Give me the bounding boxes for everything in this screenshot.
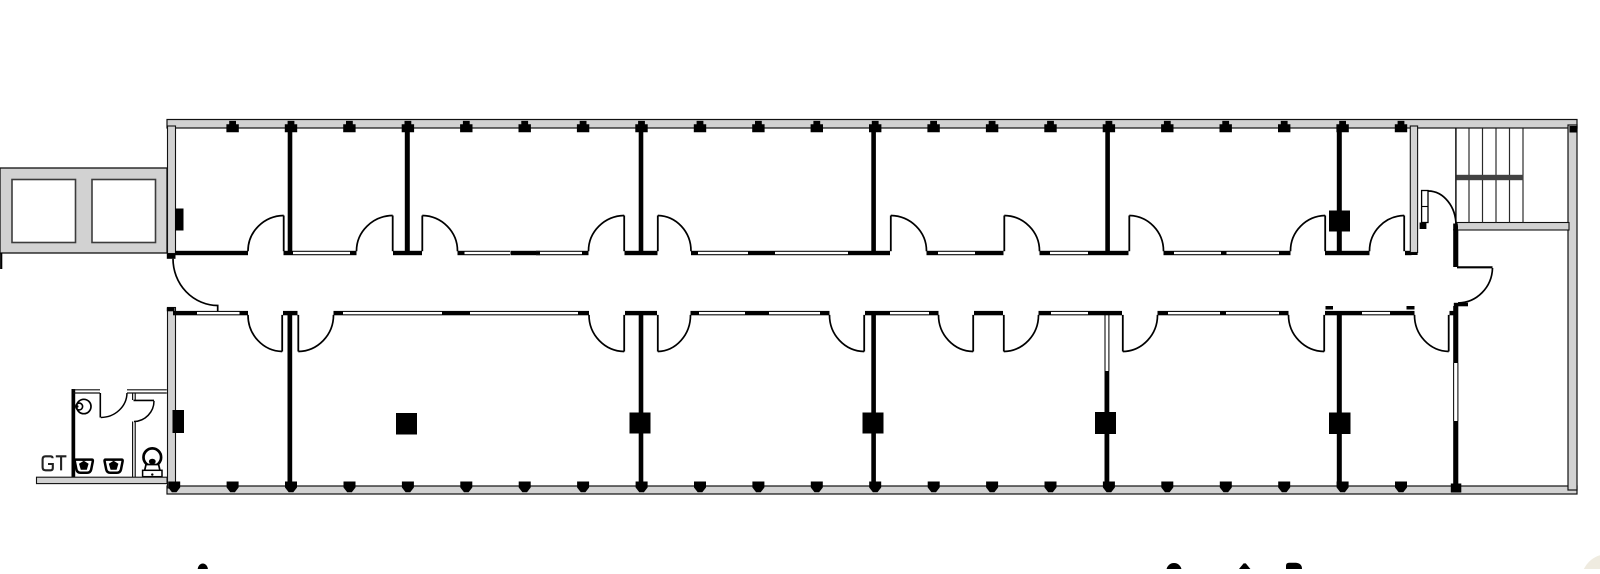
wire glazed wall B x470-578 (470, 310, 578, 312)
wall solid segment T12 cap (927, 251, 939, 255)
wall upper partition P3 (639, 128, 644, 252)
wall solid segment B9 chunk (745, 311, 769, 315)
door lower room5 door right of Q4 (1122, 315, 1124, 352)
wire glazed wall B glazed slot x1362-1390 (1362, 310, 1390, 312)
column square on P6 upper (1329, 211, 1350, 232)
stair treads (1468, 129, 1470, 223)
wall toilet inner partition lower (132, 422, 134, 478)
door room4 door right of P3 (657, 216, 659, 252)
node junction blob bottom of right-end partition (1451, 484, 1462, 493)
node top-right wall junction block (1570, 126, 1578, 133)
wire glazed wall T x1174-1221 (1174, 250, 1221, 252)
wall toilet inner partition upper (132, 393, 134, 400)
door room1 door (hinge at P1) (283, 216, 285, 252)
wall cap left corridor end upper (167, 254, 176, 259)
wire glazed wall B x890-929 (890, 310, 929, 312)
door room3 door left of P3 (623, 216, 625, 252)
wall solid segment T10 chunk (748, 251, 775, 255)
wall solid segment T19 threshold at P6 (1325, 251, 1370, 255)
column square room A (396, 413, 417, 435)
wall lower partition Q3 (871, 313, 876, 486)
wall solid segment T16 cap (1164, 251, 1175, 255)
fixture toilet bowl (144, 448, 162, 466)
wall solid segment B16 cap (1158, 311, 1169, 315)
wall toilet annex left (solid) (72, 389, 76, 477)
wall solid segment T11 chunk+P4 (848, 251, 890, 255)
wire glazed wall B x197-239 (197, 310, 240, 312)
wall solid segment T7 cap (582, 251, 589, 255)
door room5 door right of P4 (890, 216, 892, 252)
wire toilet annex base strip (37, 477, 168, 483)
wall solid segment B10 cap (820, 311, 830, 315)
column square on Q2 (630, 413, 651, 434)
wire glazed wall B x343-442 (343, 310, 442, 312)
elevator annex block (0, 168, 167, 253)
door stair entry hinge block (1420, 223, 1427, 230)
wall cap stair wall bottom (1408, 253, 1418, 256)
wall solid segment B19 threshold left part (1325, 311, 1362, 315)
wall solid segment B21 cap/leaf zone (1450, 311, 1456, 315)
door lower room2 door right of Q1 (297, 315, 299, 352)
wire stair block left wall (1410, 126, 1417, 253)
door room3 door right of P2 (421, 216, 423, 252)
wall solid segment T4 threshold at P2 (393, 251, 422, 255)
wire glazed wall B x1051-1088 (1051, 310, 1088, 312)
door room6 door right of P5 (1128, 216, 1130, 252)
door lower room1 door left of Q1 (281, 315, 283, 352)
wall solid segment B13 threshold (974, 311, 1003, 315)
node junction stair arc end (1454, 226, 1459, 230)
wall solid segment T18 cap (1279, 251, 1291, 255)
door toilet entry leaf (99, 393, 101, 418)
wire glazed wall T x1050-1088 (1050, 250, 1088, 252)
node faint compass blob bottom right corner (1581, 554, 1600, 574)
wire toilet annex top wall right segment (127, 389, 167, 391)
wall solid segment T2 partition cap x283-293 (284, 251, 294, 255)
wall lower partition Q1 (288, 312, 293, 486)
door corridor left end swing arc (173, 259, 218, 311)
wall solid segment B7 threshold at Q2 (625, 311, 657, 315)
door room2 door left of P2 (392, 216, 394, 252)
node facade markers top (226, 121, 1407, 132)
wall right-end partition cap below door (1454, 303, 1468, 307)
door lower room4 door A (972, 315, 974, 352)
wall solid segment B1 x173-197 (173, 311, 197, 315)
door corridor right end: leaf (1457, 266, 1493, 268)
fixture sink 1 (75, 460, 93, 473)
stair flight boundary line (1455, 129, 1457, 223)
wire glazed wall B x1168-1220 (1168, 310, 1220, 312)
node cropped caption letter 1 (1166, 563, 1181, 574)
wall solid segment B3 threshold at Q1 (283, 311, 298, 315)
wall solid segment B15 chunk+Q4 (1088, 311, 1122, 315)
wall upper partition P5 (1105, 128, 1110, 252)
door room7 door right of P6 (1403, 216, 1405, 252)
node tick above wall left of Q5 (1326, 306, 1334, 310)
wall lower partition Q5 (1337, 311, 1342, 486)
wire glazed wall B x699-745 (699, 310, 745, 312)
wall right-end partition mid segment (1453, 306, 1458, 363)
column square on Q3 (863, 413, 884, 434)
node facade markers bottom (168, 482, 1407, 493)
door stair entry swing arc (1428, 191, 1456, 226)
wall upper partition P4 (871, 128, 876, 252)
wall upper partition P6 (1337, 128, 1342, 252)
wall lower partition Q2 (639, 313, 644, 486)
wall solid segment T6 chunk (511, 251, 541, 255)
wire glazed wall T x698-748 (698, 250, 748, 252)
wall solid segment B20 threshold right part (1390, 311, 1415, 315)
door toilet entry swing arc (101, 393, 127, 418)
wall solid segment B2 cap (240, 311, 249, 315)
wall solid segment B14 cap (1039, 311, 1052, 315)
wire glazed wall B x1226-1279 (1226, 310, 1279, 312)
door lower room3 door left of Q3 (863, 315, 865, 352)
wall right-end partition lower segment (1453, 421, 1458, 486)
column on left wall lower (173, 410, 185, 433)
wall solid segment T14 cap (1040, 251, 1051, 255)
door lower room2 door left of Q2 (623, 315, 625, 352)
wall solid segment T13 chunk (975, 251, 1004, 255)
door toilet stall swing arc (134, 401, 154, 422)
wire toilet annex top wall left segment (73, 389, 100, 391)
wall solid segment B18 cap (1279, 311, 1289, 315)
door lower room6 door left of right-end partition (1448, 315, 1450, 352)
node GT label (drawn as paths) (43, 456, 67, 470)
wall solid segment B4 cap (334, 311, 344, 315)
door lower room5 door left of Q5 (1323, 315, 1325, 352)
wire glazed wall T x464-510 (465, 250, 511, 252)
wire glazed wall T x775-848 (775, 250, 848, 252)
door lower room3 door right of Q2 (657, 315, 659, 352)
wire stair lower landing wall (1457, 223, 1569, 231)
wall solid segment B5 chunk (442, 311, 470, 315)
wire glazed wall T x1226-1279 (1227, 250, 1280, 252)
wall solid segment T3 cap (350, 251, 357, 255)
wire bottom exterior wall (167, 486, 1577, 494)
door corridor right end: swing arc (1458, 268, 1493, 303)
wall upper partition P2 (405, 128, 410, 252)
wire glazed wall B x769-820 (769, 310, 820, 312)
wall solid segment B8 cap (691, 311, 700, 315)
wall solid segment T17 tick (1221, 251, 1227, 255)
wall solid segment B12 cap (929, 311, 939, 315)
wall solid segment B11 leaf+Q3 threshold (865, 311, 890, 315)
wire left exterior wall lower (168, 308, 176, 489)
fixture sink 2 (105, 460, 123, 473)
wall solid segment T8 threshold at P3 (625, 251, 658, 255)
wall solid segment T15 chunk+P5 (1088, 251, 1129, 255)
column on left wall upper (175, 209, 184, 231)
wall right-end partition glazed slot (1453, 363, 1455, 421)
stair mid landing bar (1457, 175, 1524, 180)
wall solid segment T5 cap (458, 251, 465, 255)
wall upper partition P1 (288, 128, 293, 252)
wall solid segment T1 x175-248 (175, 251, 248, 255)
elevator shaft 2 (92, 180, 156, 243)
wire left exterior wall upper (168, 126, 176, 254)
column square on Q5 lower (1329, 413, 1351, 435)
wire top exterior wall (167, 120, 1577, 129)
wall solid segment T20 cap (1405, 251, 1412, 255)
wall solid segment B17 tick (1220, 311, 1226, 315)
wall cap landing wall left end (1453, 224, 1458, 231)
wall lower partition Q4 thin glazed upper part (1104, 315, 1106, 371)
fixture toilet cistern (144, 465, 161, 475)
wall solid segment T9 cap (691, 251, 698, 255)
door room5 mid door (1003, 216, 1005, 252)
wire right exterior wall (1568, 125, 1577, 490)
elevator shaft 1 (12, 180, 76, 243)
node tick above wall right door (1407, 306, 1415, 310)
node cropped caption letter 2 (A top) (1239, 563, 1250, 569)
wire wall stub below annex (0, 253, 2, 269)
column square on Q4 (1095, 412, 1116, 434)
door lower room4 door B (1003, 315, 1005, 352)
wall right-end partition upper segment (1453, 229, 1458, 267)
wire glazed wall T x536-582 (536, 250, 582, 252)
door toilet stall leaf (134, 399, 155, 401)
wall lower partition Q4 solid part (1105, 371, 1110, 486)
door stair entry leaf (1422, 191, 1428, 223)
node cropped caption letter 3 (B top) (1286, 563, 1302, 569)
door room6 door left of P6 (1324, 216, 1326, 252)
node cropped digit top-left of caption (198, 564, 208, 574)
wall cap left corridor end lower (167, 308, 175, 312)
wire glazed wall T x938-975 (938, 250, 975, 252)
fixture wash basin small round (77, 399, 91, 413)
wall solid segment B6 cap (578, 311, 589, 315)
wire glazed wall T x293-350 (293, 250, 350, 252)
